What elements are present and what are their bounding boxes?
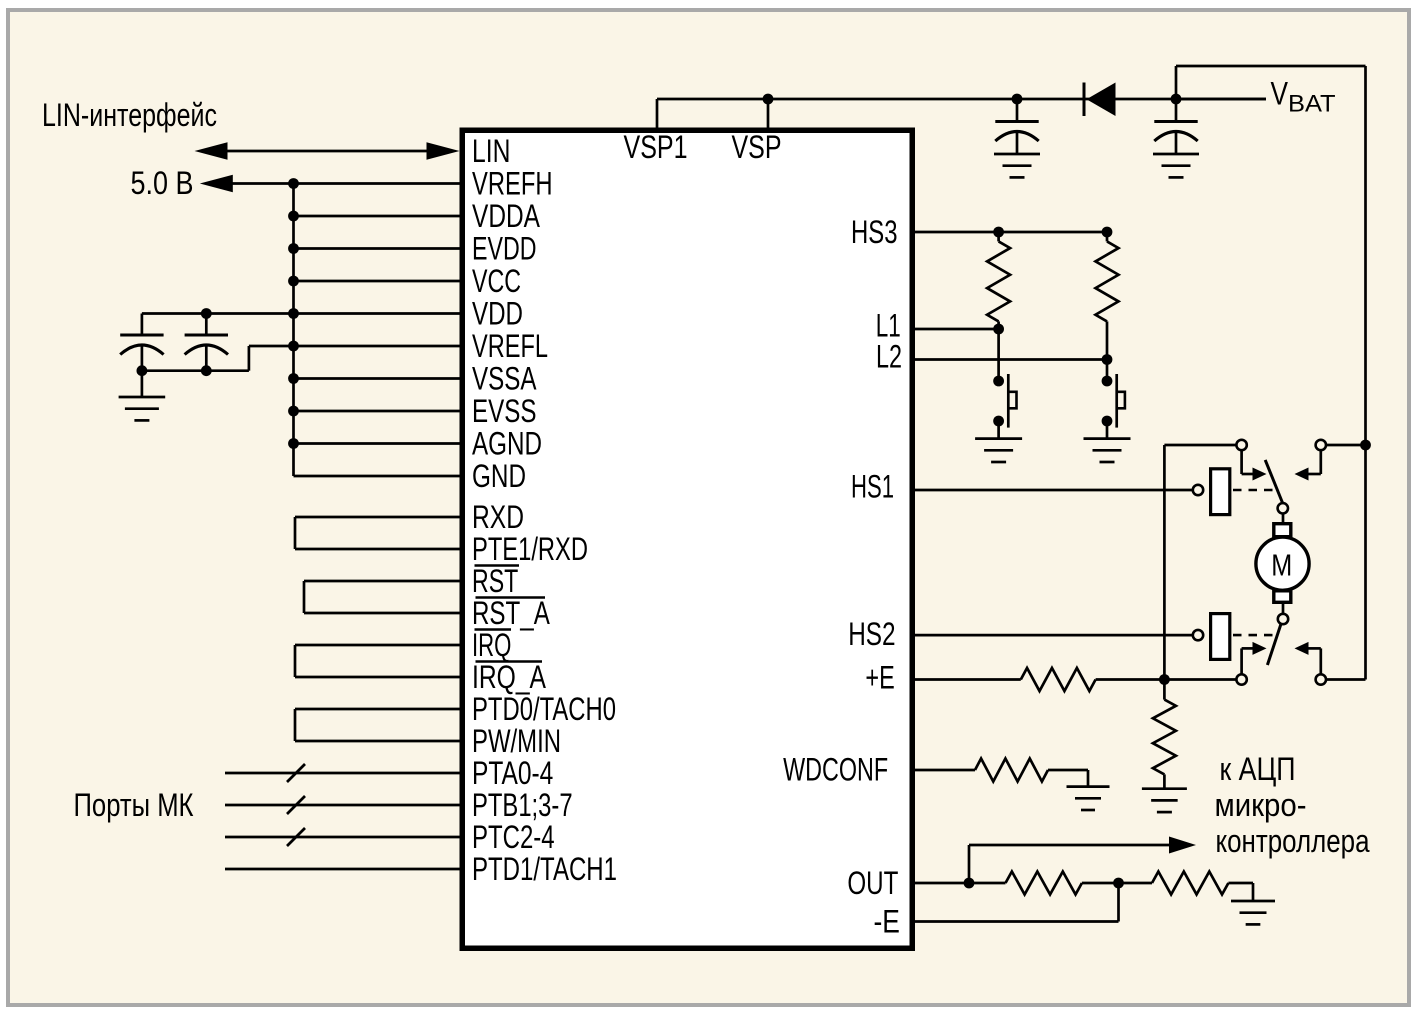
svg-text:-E: -E [874,903,900,939]
svg-text:GND: GND [472,458,526,494]
wire VBAT rail right [1364,66,1367,680]
resistor R7 [1152,872,1228,895]
node VREFH bus [288,178,299,189]
wire motor bottom lead [1282,604,1285,614]
svg-text:HS2: HS2 [848,616,895,652]
wire caps to VREFL [142,346,294,371]
wire bridge left vertical [1163,445,1166,680]
svg-text:OUT: OUT [847,865,898,901]
node VSSA bus [288,373,299,384]
node SW1 right terminal [1316,440,1326,450]
pin label IRQ_A [472,659,547,695]
pin label VDDA [472,198,541,234]
pin label VCC [472,263,521,299]
pin label RXD [472,499,524,535]
wire port PTC2-4 [225,828,460,846]
node R1 top [993,227,1004,238]
svg-text:VREFH: VREFH [472,166,553,202]
pin label VSP [732,129,782,165]
wire L2 to SB2 [1106,360,1109,382]
pin label WDCONF [783,752,888,788]
resistor R2 [1096,232,1119,360]
node EVSS bus [288,406,299,417]
svg-text:VDD: VDD [472,296,523,332]
wire +E right [1096,678,1237,681]
node C2 top [201,308,212,319]
capacitor C2 [185,314,228,371]
pin label IRQ [472,627,511,663]
node C1 bottom [137,365,148,376]
wire motor top lead [1282,514,1285,522]
pin label VDD [472,296,523,332]
wire bridge top [1164,444,1236,447]
pin label VSP1 [624,129,688,165]
wire VREFH to 5V [200,175,460,193]
node SW2 left terminal [1236,674,1246,684]
wire WDCONF [915,769,975,772]
capacitor C4 [1154,99,1197,154]
pin label HS1 [851,468,894,504]
wire VSP lead [767,99,770,128]
svg-text:VREFL: VREFL [472,328,548,364]
node SW2 right terminal [1316,674,1326,684]
pin label L2 [876,339,902,375]
svg-text:PTA0-4: PTA0-4 [472,755,553,791]
wire VREFL [294,345,460,348]
wire K1 link dashed [1233,489,1277,492]
wire VBAT rail riser [1175,66,1178,99]
svg-text:M: M [1271,548,1292,583]
wire EVDD [294,247,460,250]
pin label HS2 [848,616,895,652]
wire IRQ jumper loop [295,645,460,677]
svg-text:RXD: RXD [472,499,524,535]
diode VD1 [1084,83,1116,117]
node OUT junction [964,878,975,889]
pin label VREFL [472,328,548,364]
pin IRQ overbar [475,628,512,631]
svg-text:RST: RST [472,563,518,599]
wire OUT mid [1082,882,1152,885]
wire VDDA [294,215,460,218]
svg-text:HS3: HS3 [851,214,898,250]
svg-text:BAT: BAT [1288,91,1336,118]
motor M1 bottom brush [1274,591,1291,603]
node C3 junction [1012,94,1023,105]
svg-text:AGND: AGND [472,426,542,462]
pin label L1 [876,308,901,344]
svg-text:к АЦП: к АЦП [1220,751,1296,787]
arrow to ADC [1169,837,1196,854]
relay coil K1 [1211,469,1230,515]
node VDD bus [288,308,299,319]
ground C3 [994,154,1040,177]
wire VBAT rail top [1176,65,1366,68]
svg-text:LIN: LIN [472,133,510,169]
pin label PTD0/TACH0 [472,691,616,727]
svg-text:PTB1;3-7: PTB1;3-7 [472,787,573,823]
pin label EVDD [472,231,537,267]
pin label -E [874,903,900,939]
svg-text:PTD0/TACH0: PTD0/TACH0 [472,691,616,727]
svg-text:WDCONF: WDCONF [783,752,888,788]
pin label RST [472,563,518,599]
wire VCC [294,280,460,283]
wire RXD jumper loop [295,517,460,549]
node SW1 left terminal [1236,440,1246,450]
node rail junction [1360,440,1371,451]
ground C4 [1153,154,1199,177]
wire EVSS [294,410,460,413]
wire L1 [915,328,999,331]
pin label VREFH [472,166,553,202]
pin label PTD1/TACH1 [472,851,617,887]
pin label EVSS [472,393,537,429]
pin label PTE1/RXD [472,531,588,567]
svg-text:+E: +E [865,660,894,696]
node VREFL bus [288,341,299,352]
svg-text:микро-: микро- [1215,787,1307,823]
wire L2 [915,358,1107,361]
capacitor C1 [120,314,163,398]
label k ADC [1220,751,1296,787]
wire OUT to ADC [969,845,1171,883]
ground C1 [119,397,166,420]
wire port PTD1/TACH1 [225,868,460,871]
ground R4 [1142,789,1187,812]
wire -E [915,883,1119,922]
svg-text:V: V [1271,76,1289,112]
node VDDA bus [288,211,299,222]
op-amp U1 MC68HC908 body [462,130,912,948]
ground SB2 [1084,439,1131,462]
pin label LIN [472,133,510,169]
arrow SW1 left [1253,468,1267,481]
pin IRQ_A overbar [476,660,543,663]
label LIN-interface [42,97,217,133]
svg-text:VDDA: VDDA [472,198,541,234]
wire VSP supply top rail [657,98,1266,101]
pin label AGND [472,426,542,462]
wire HS2 [915,634,1193,637]
wire RST jumper loop [304,581,460,613]
relay coil K2 [1211,614,1230,660]
svg-text:PTE1/RXD: PTE1/RXD [472,531,588,567]
pin label PW/MIN [472,723,561,759]
svg-text:IRQ: IRQ [472,627,511,663]
switch SW1 blade [1265,460,1282,503]
resistor R3 [1021,668,1096,691]
wire HS1 [915,489,1193,492]
wire 5V bus vertical [292,184,295,477]
wire OUT left [915,882,1006,885]
pin label PTC2-4 [472,819,555,855]
svg-text:VSP1: VSP1 [624,129,688,165]
svg-text:HS1: HS1 [851,468,894,504]
svg-text:VSSA: VSSA [472,361,537,397]
wire HS3 [915,231,1107,234]
resistor R6 [1006,872,1082,895]
node AGND bus [288,438,299,449]
pin label VSSA [472,361,537,397]
wire VSSA [294,377,460,380]
node SW1 common [1278,503,1288,513]
wire AGND [294,442,460,445]
pin label RST_A [472,595,550,631]
node HS1 terminal [1193,485,1203,495]
svg-text:Порты МК: Порты МК [74,787,194,823]
svg-text:PTC2-4: PTC2-4 [472,819,555,855]
wire TACH0 jumper loop [295,709,460,741]
switch SB1 [993,374,1016,439]
motor M1 top brush [1274,524,1291,537]
wire SW2 right to rail [1326,678,1366,681]
svg-text:VSP: VSP [732,129,782,165]
wire VDD [142,312,460,315]
wire SW1 left arm [1242,450,1253,474]
ground R5 [1067,787,1110,810]
wire R7 to ground [1228,883,1253,901]
pin label HS3 [851,214,898,250]
ground R7 [1231,901,1275,924]
svg-text:PW/MIN: PW/MIN [472,723,561,759]
pin label GND [472,458,526,494]
switch SB2 [1102,374,1125,439]
node C4 junction [1171,94,1182,105]
ground SB1 [975,439,1022,462]
label kontrollera [1216,823,1370,859]
wire +E left [915,678,1021,681]
node R2 top [1102,227,1113,238]
wire SW1 right arm [1309,450,1321,474]
wire K2 link dashed [1233,634,1277,637]
wire port PTB1;3-7 [225,796,460,814]
label mikro [1215,787,1307,823]
wire L1 to SB1 [997,329,1000,381]
wire LIN bidirectional [195,142,460,160]
node VSP junction [763,94,774,105]
node L1 junction [993,324,1004,335]
motor M1 [1256,537,1309,590]
wire R5 to ground [1048,770,1088,787]
node VBAT label [1271,76,1336,118]
label Ports MK [74,787,194,823]
pin RST_A overbar [476,596,546,599]
resistor R4 [1153,680,1176,789]
label 5.0V [131,165,194,201]
svg-text:EVSS: EVSS [472,393,537,429]
wire VBAT stub [1176,98,1266,101]
svg-text:EVDD: EVDD [472,231,537,267]
node C2 bottom [201,365,212,376]
wire GND [294,475,460,478]
svg-text:RST_A: RST_A [472,595,550,631]
switch SW2 blade [1267,624,1281,665]
pin label PTB1;3-7 [472,787,573,823]
resistor R1 [987,232,1010,329]
pin label OUT [847,865,898,901]
wire SW2 left arm [1242,648,1253,674]
wire SW2 right arm [1309,648,1321,674]
pin label +E [865,660,894,696]
node L2 junction [1102,354,1113,365]
svg-text:L2: L2 [876,339,902,375]
svg-text:контроллера: контроллера [1216,823,1370,859]
pin RST overbar [475,564,520,567]
svg-text:5.0 В: 5.0 В [131,165,194,201]
arrow SW2 left [1253,642,1267,655]
node EVDD bus [288,243,299,254]
pin label PTA0-4 [472,755,553,791]
wire SW1 right to rail [1326,444,1366,447]
arrow SW1 right [1295,468,1309,481]
svg-text:IRQ_A: IRQ_A [472,659,547,695]
node OUT divider [1113,878,1124,889]
node +E junction [1159,674,1170,685]
node HS2 terminal [1193,630,1203,640]
wire VSP1 lead [656,99,659,128]
svg-text:VCC: VCC [472,263,521,299]
node VCC bus [288,276,299,287]
svg-text:PTD1/TACH1: PTD1/TACH1 [472,851,617,887]
wire port PTA0-4 [225,764,460,782]
arrow SW2 right [1295,642,1309,655]
svg-text:LIN-интерфейс: LIN-интерфейс [42,97,217,133]
capacitor C3 [995,99,1038,154]
node SW2 common [1278,614,1288,624]
resistor R5 [975,759,1048,782]
